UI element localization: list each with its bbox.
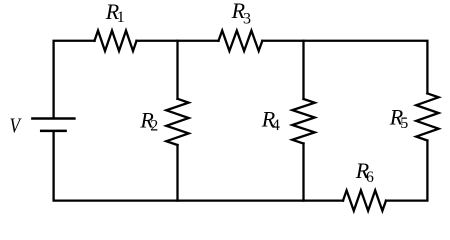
label R1 [105, 0, 125, 26]
label R2 [139, 107, 158, 134]
svg-text:4: 4 [272, 117, 280, 134]
svg-text:3: 3 [243, 11, 251, 28]
wire bottom: R6 to bottom-left corner up to battery [54, 131, 343, 200]
svg-text:5: 5 [400, 115, 408, 132]
resistor R2 [166, 99, 188, 145]
resistor R3 [219, 31, 263, 51]
wire branch R2 top [176, 41, 178, 99]
label V [10, 113, 22, 137]
wire branch R2 bottom [176, 145, 178, 201]
resistor R1 [95, 31, 137, 51]
label R4 [261, 107, 280, 134]
label R3 [231, 0, 251, 28]
svg-text:1: 1 [117, 9, 125, 26]
resistor R4 [292, 99, 314, 144]
wire right: R5 to bottom-right corner to R6 [386, 141, 427, 201]
resistor R6 [343, 190, 386, 210]
label R6 [355, 158, 374, 186]
svg-text:V: V [10, 113, 22, 137]
wire branch R4 top [302, 41, 304, 99]
wire top-right: R3 to top-right corner down to R5 [262, 41, 427, 94]
svg-text:6: 6 [366, 169, 374, 186]
wire branch R4 bottom [302, 144, 304, 201]
wire top-left: battery to R1 [54, 41, 95, 118]
resistor R5 [416, 93, 438, 140]
label R5 [389, 105, 408, 132]
svg-text:2: 2 [150, 118, 158, 135]
battery V top plate [32, 117, 74, 120]
battery V bottom plate [41, 130, 65, 133]
wire top: R1 to R3 [137, 40, 219, 42]
